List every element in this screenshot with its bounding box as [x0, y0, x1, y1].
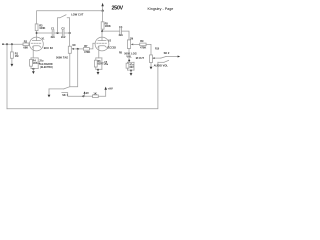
wire C1 to node [54, 32, 62, 34]
wire V2 cathode lead [98, 46, 100, 58]
wire V1 cathode lead [32, 46, 34, 58]
wire R1 top lead [11, 44, 13, 52]
tube V1 cathode [32, 46, 40, 47]
cathode network V2: top bar [96, 57, 102, 59]
ground arrow below VR2 [130, 73, 133, 76]
node RC bottom junction [130, 70, 132, 72]
svg-text:100K: 100K [105, 24, 111, 28]
svg-text:250V: 250V [112, 6, 124, 12]
wire VR3 bottom lead [150, 63, 152, 67]
ground arrow below R1 [11, 64, 14, 67]
svg-text:470K: 470K [140, 46, 146, 50]
jack SK1 tip contact blade [49, 87, 70, 89]
potentiometer VR1 gain [68, 46, 71, 53]
node plate V1 junction [36, 32, 38, 34]
wire wiper to grid resistor [74, 48, 84, 50]
resistor R6 cathode 2 [94, 58, 97, 69]
jack SK2 tip contact [161, 56, 180, 59]
wire input lead [2, 43, 23, 45]
svg-text:2n2: 2n2 [61, 35, 66, 39]
svg-text:R2: R2 [24, 40, 28, 44]
VR2 wiper arrow [131, 44, 133, 46]
svg-text:V2: V2 [108, 40, 112, 42]
svg-text:R9: R9 [140, 39, 144, 43]
wire to ground arrow [130, 70, 132, 73]
capacitor C1 [52, 30, 54, 36]
svg-text:1M: 1M [15, 54, 19, 58]
resistor R1 [11, 52, 14, 58]
RC network top bar [128, 61, 135, 63]
node input junction B [11, 43, 13, 45]
resistor R9 [140, 43, 146, 46]
resistor R7 grid 2 [83, 48, 89, 51]
wire to ground arrow [97, 69, 99, 72]
svg-text:22n: 22n [51, 35, 56, 39]
node 250V supply arrow [101, 3, 103, 11]
ground arrow at SK1 [48, 95, 51, 98]
switch SW1 LOW CUT [58, 15, 70, 33]
tube V1 envelope [30, 37, 44, 51]
wire plate junction to C1 [37, 32, 52, 34]
svg-text:C4: C4 [119, 25, 123, 29]
wire HT top rail [37, 11, 103, 24]
wire wiper to R9 [133, 43, 140, 45]
cathode network V1: top bar [31, 57, 38, 59]
node cathode 2 junction [97, 69, 99, 71]
wire C4 to volume pot [122, 31, 130, 40]
wire R7 to V2 grid [89, 43, 95, 49]
wire R3 bottom lead [36, 31, 38, 33]
wire C2 to node [64, 32, 71, 34]
supply arrow 9V small [83, 91, 85, 96]
node input junction A [6, 43, 8, 45]
wire VR2 bottom lead [128, 49, 130, 63]
resistor R4 cathode 1 [30, 58, 33, 69]
svg-text:ECC83: ECC83 [108, 46, 117, 50]
tube V2 envelope [95, 37, 109, 51]
node cathode 1 junction [32, 68, 34, 70]
svg-text:SK 2: SK 2 [164, 51, 170, 55]
svg-text:22n: 22n [119, 33, 124, 37]
ground arrow cathode 1 [32, 71, 35, 74]
node low-cut right junction [69, 32, 71, 34]
capacitor C5 cathode bypass 2 [101, 58, 104, 69]
capacitor C10 [126, 62, 129, 70]
svg-text:(ELECTRO): (ELECTRO) [40, 67, 53, 69]
wire R5 bottom lead [102, 29, 104, 31]
svg-text:AUDIO VOL: AUDIO VOL [154, 64, 169, 68]
junction dot at supply node [102, 10, 104, 12]
wire wiper junction down to jack SK1 [70, 49, 78, 87]
capacitor C2 [62, 30, 64, 36]
svg-text:C1: C1 [51, 27, 55, 31]
svg-text:Kingsley - Page: Kingsley - Page [148, 7, 174, 11]
svg-text:M CUT: M CUT [136, 56, 145, 60]
potentiometer VR2 volume [127, 40, 130, 49]
svg-text:TAG BOARD: TAG BOARD [39, 63, 53, 66]
svg-text:ECC 83: ECC 83 [44, 46, 54, 50]
wire to ground arrow [32, 69, 34, 72]
svg-text:1M: 1M [72, 45, 75, 47]
svg-text:R7: R7 [84, 44, 88, 48]
wire R2 to grid [28, 43, 31, 45]
cathode network V1: bottom bar [31, 68, 38, 70]
resistor R2 grid stopper [23, 43, 29, 46]
wire junction to R11 [83, 95, 92, 97]
wire supply to R5 [102, 11, 104, 22]
svg-text:68K: 68K [23, 45, 28, 49]
capacitor C3 cathode bypass 1 [37, 58, 40, 69]
VR3 wiper arrow [152, 57, 154, 59]
node low-cut left junction [57, 32, 59, 34]
resistor R11 [93, 95, 99, 98]
resistor R5 plate load 2 [101, 22, 104, 29]
wire SK1 to ground arrow [48, 89, 50, 95]
wire R11 to +9V arrow [98, 89, 105, 96]
wire C2 node down to VR1 [69, 33, 71, 46]
wire R9 to tone pot [146, 44, 151, 55]
ground arrow cathode 2 [97, 72, 100, 75]
potentiometer VR3 mid cut [150, 55, 153, 63]
svg-text:1K: 1K [93, 91, 96, 95]
svg-text:63V: 63V [130, 67, 135, 69]
node battery junction [82, 95, 84, 97]
node plate V2 junction [101, 30, 103, 32]
resistor R3 plate load [35, 24, 38, 31]
VR1 wiper arrow [72, 48, 74, 50]
jack SK2 sleeve contact [158, 60, 169, 62]
wire RC right branch [133, 62, 135, 70]
jack SK1 sleeve contact [62, 93, 83, 97]
wire bottom ground rail [7, 62, 158, 109]
svg-text:25u: 25u [39, 60, 44, 62]
wire VR1 bottom lead down [69, 53, 71, 86]
RC network bottom bar [128, 69, 135, 71]
svg-text:R10: R10 [155, 49, 160, 51]
svg-text:+9V: +9V [108, 86, 113, 90]
wire wiper to jack [155, 57, 161, 59]
wire left ground drop [6, 44, 8, 109]
svg-text:25u: 25u [104, 64, 109, 66]
node wiper junction [77, 48, 79, 50]
svg-text:100K: 100K [39, 26, 45, 30]
tube V2 cathode [98, 46, 106, 47]
svg-text:1M: 1M [130, 38, 133, 40]
tube V1 grid (dashed) [31, 42, 41, 44]
cathode network V2: bottom bar [96, 68, 102, 70]
tube V1 plate [32, 33, 40, 41]
svg-text:LOW CUT: LOW CUT [71, 12, 84, 16]
svg-text:470K: 470K [84, 50, 90, 54]
svg-text:500K TAG: 500K TAG [56, 56, 68, 60]
wire R1 bottom lead [11, 58, 13, 64]
supply arrow +9V [104, 87, 107, 90]
svg-text:R8: R8 [119, 52, 123, 54]
capacitor C4 [120, 28, 122, 34]
wire plate 2 to C4 [102, 30, 119, 32]
svg-text:9V: 9V [86, 93, 89, 95]
ground arrow below VR3 [150, 67, 153, 70]
svg-text:V1: V1 [42, 38, 46, 40]
svg-text:C2: C2 [61, 26, 65, 30]
tube V2 plate [98, 31, 106, 40]
tube V2 grid (dashed) [97, 42, 107, 44]
node VR2 bottom junction [128, 60, 130, 62]
